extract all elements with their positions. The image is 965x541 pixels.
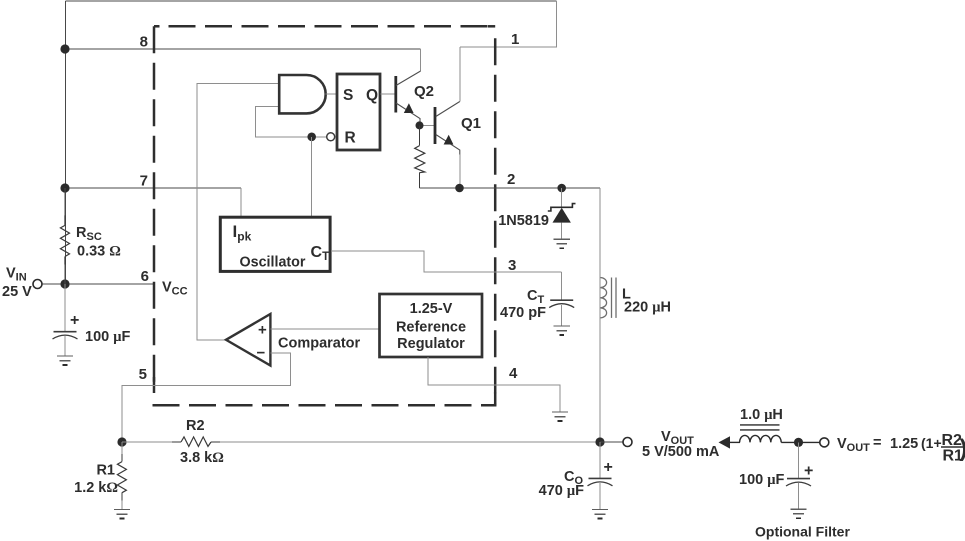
wire filter left (729, 441, 740, 443)
svg-text:Q1: Q1 (461, 115, 481, 132)
arrow to VOUT from filter (719, 436, 731, 448)
svg-text:Oscillator: Oscillator (240, 255, 306, 271)
inductor L (600, 278, 616, 318)
ground CT (554, 326, 570, 335)
transistor Q2 (396, 71, 421, 124)
svg-text:Optional Filter: Optional Filter (755, 524, 850, 540)
comparator U3 (226, 314, 270, 366)
resistor RSC (64, 188, 66, 284)
ground diode (554, 239, 570, 248)
resistor R1 (121, 442, 123, 510)
svg-text:470 μF: 470 μF (539, 483, 584, 499)
wire comparator minus to pin5 (122, 353, 290, 442)
node pin7 junction (60, 183, 69, 192)
svg-text:5: 5 (139, 366, 147, 383)
terminal Vin (33, 280, 42, 289)
svg-text:+: + (804, 463, 813, 480)
block 1.25-V Reference Regulator (380, 294, 483, 357)
node filter junction (794, 438, 803, 447)
svg-text:=: = (873, 435, 881, 451)
node diode on pin2 (557, 184, 566, 193)
wire Q1 collector (459, 47, 461, 102)
node Q1 emitter on pin2 (455, 184, 464, 193)
wire switch node to output (599, 188, 601, 442)
svg-text:1.25: 1.25 (890, 436, 918, 452)
block Ipk/Oscillator (220, 217, 330, 271)
svg-text:R: R (345, 130, 356, 147)
wire pin 7 (65, 187, 241, 189)
capacitor CO (588, 442, 613, 510)
svg-text:100 μF: 100 μF (739, 472, 784, 488)
node R feedback junction (307, 133, 316, 142)
svg-text:7: 7 (140, 173, 148, 190)
wire Q2 emitter to node (420, 124, 435, 126)
wire output stub (600, 441, 623, 443)
wire pin 6 (42, 283, 154, 285)
wire pin 2 rail (420, 187, 601, 189)
ground R1 (114, 510, 130, 519)
svg-text:3.8 kΩ: 3.8 kΩ (180, 450, 224, 466)
svg-text:3: 3 (508, 257, 516, 274)
transistor Q1 (435, 102, 460, 155)
svg-text:): ) (960, 435, 965, 462)
capacitor 100uF input (53, 284, 78, 356)
svg-text:Comparator: Comparator (278, 336, 361, 352)
terminal VOUT (623, 438, 632, 447)
svg-text:R2: R2 (186, 418, 205, 434)
svg-text:100 μF: 100 μF (85, 329, 130, 345)
svg-text:1N5819: 1N5819 (498, 213, 549, 229)
node pin8 junction (60, 44, 69, 53)
R input inversion bubble (327, 133, 335, 141)
svg-text:1.2 kΩ: 1.2 kΩ (74, 480, 118, 496)
svg-text:220 μH: 220 μH (624, 300, 671, 316)
svg-text:Q2: Q2 (414, 83, 434, 100)
wire Q output (381, 93, 396, 95)
svg-text:1: 1 (511, 31, 519, 48)
wire AND lower input feedback (256, 107, 327, 137)
wire Q1 emitter down (459, 155, 461, 189)
capacitor 100uF filter (786, 442, 811, 509)
ground CO (592, 510, 608, 519)
latch U2 SR (337, 74, 380, 150)
wire pin 4 (428, 357, 560, 412)
svg-text:R1: R1 (96, 463, 115, 479)
svg-text:2: 2 (507, 171, 515, 188)
diode 1N5819 (548, 188, 576, 239)
ground filter cap (790, 509, 806, 518)
wire top rail (66, 0, 557, 2)
dashed IC boundary (153, 26, 496, 405)
wire AND output (326, 93, 336, 95)
svg-text:0.33 Ω: 0.33 Ω (77, 244, 121, 260)
svg-text:+: + (258, 322, 267, 339)
and-gate U1 (279, 75, 326, 113)
capacitor CT (549, 272, 574, 326)
node output junction (595, 437, 604, 446)
svg-text:1.0 μH: 1.0 μH (740, 407, 783, 423)
inductor filter 1.0uH (740, 425, 782, 443)
wire pin 8 (65, 48, 421, 50)
svg-text:+: + (604, 459, 613, 476)
svg-text:+: + (70, 312, 79, 329)
svg-text:(1+: (1+ (921, 435, 942, 451)
ground pin 4 (552, 412, 568, 421)
svg-text:470 pF: 470 pF (500, 305, 546, 321)
ground input cap (57, 356, 73, 365)
svg-text:−: − (257, 345, 266, 362)
svg-text:6: 6 (141, 268, 149, 285)
svg-text:4: 4 (509, 365, 518, 382)
node Q2 emitter junction (416, 121, 424, 129)
node Vin junction (60, 279, 69, 288)
formula VOUT equation (837, 432, 965, 465)
wire comparator output to AND input (197, 84, 279, 341)
svg-text:Regulator: Regulator (397, 336, 465, 352)
wire comparator plus to reference (270, 328, 379, 330)
terminal filter output (820, 438, 829, 447)
resistor R2 (122, 441, 600, 443)
wire pin 3 (CT) (331, 251, 562, 272)
wire filter right (781, 441, 820, 443)
node R1 R2 junction (117, 437, 126, 446)
svg-text:Reference: Reference (396, 320, 466, 336)
svg-text:8: 8 (140, 34, 148, 51)
svg-text:S: S (343, 87, 353, 104)
svg-text:1.25-V: 1.25-V (410, 301, 453, 317)
resistor Q2 emitter (internal) (419, 126, 421, 189)
svg-text:5 V/500 mA: 5 V/500 mA (642, 444, 720, 460)
wire R junction to oscillator (311, 137, 313, 217)
svg-text:25 V: 25 V (2, 284, 32, 300)
wire left rail (65, 1, 67, 284)
svg-text:Q: Q (366, 87, 378, 104)
